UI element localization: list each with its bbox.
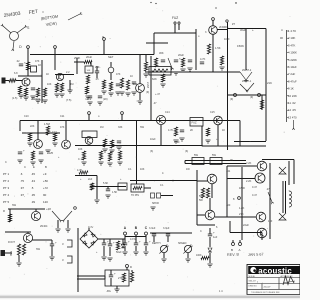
svg-text:(9): (9)	[230, 98, 233, 101]
svg-text:1.5K: 1.5K	[112, 191, 117, 194]
svg-text:SW: SW	[12, 204, 17, 207]
svg-text:.97: .97	[20, 193, 24, 197]
svg-text:1W: 1W	[186, 168, 190, 171]
svg-text:2N457-1: 2N457-1	[242, 80, 252, 83]
svg-text:1uF: 1uF	[213, 236, 218, 239]
svg-text:+20: +20	[226, 204, 231, 207]
svg-text:+: +	[149, 240, 151, 244]
svg-text:21K: 21K	[267, 81, 272, 85]
svg-text:FET: FET	[28, 9, 38, 16]
svg-text:1.5K: 1.5K	[215, 46, 221, 50]
svg-text:20uF: 20uF	[86, 55, 92, 59]
svg-text:#7: #7	[232, 22, 235, 26]
svg-text:0.47: 0.47	[252, 186, 257, 189]
svg-text:3 47K: 3 47K	[288, 43, 295, 47]
svg-text:11 .02: 11 .02	[288, 101, 296, 105]
svg-text:.39: .39	[31, 200, 35, 204]
svg-text:1M: 1M	[70, 83, 73, 86]
svg-text:2uF: 2uF	[88, 178, 93, 181]
svg-text:1K: 1K	[46, 73, 49, 76]
svg-text:+.47: +.47	[155, 93, 161, 96]
svg-text:NET: NET	[108, 55, 114, 59]
svg-text:2N404: 2N404	[40, 225, 48, 228]
svg-text:.27: .27	[266, 188, 270, 191]
svg-text:33K: 33K	[118, 126, 123, 129]
svg-text:5W: 5W	[212, 153, 216, 157]
svg-text:DWG NO.: DWG NO.	[249, 286, 258, 288]
svg-text:5W: 5W	[194, 153, 198, 157]
svg-text:R: R	[3, 209, 5, 213]
svg-text:8 47uF: 8 47uF	[288, 79, 297, 83]
svg-text:5.6K: 5.6K	[9, 251, 12, 256]
svg-text:4.7K: 4.7K	[168, 129, 173, 132]
svg-text:4 100K: 4 100K	[288, 51, 297, 55]
svg-text:C: C	[24, 165, 26, 169]
svg-text:(7.5): (7.5)	[66, 98, 71, 102]
svg-text:PT 2: PT 2	[3, 179, 9, 183]
svg-text:.02: .02	[16, 60, 20, 63]
svg-text:.05: .05	[95, 78, 99, 81]
svg-text:13 470: 13 470	[288, 115, 297, 119]
svg-text:PT 1: PT 1	[3, 172, 9, 176]
svg-text:10K: 10K	[140, 168, 145, 171]
svg-text:B: B	[45, 165, 47, 169]
svg-text:(20): (20)	[103, 97, 108, 101]
svg-text:+: +	[213, 231, 215, 235]
svg-text:4.7K: 4.7K	[200, 57, 206, 61]
svg-text:22K: 22K	[30, 125, 35, 128]
svg-text:2K: 2K	[190, 129, 193, 132]
svg-text:REV. B: REV. B	[227, 253, 240, 257]
svg-text:.97: .97	[20, 186, 24, 190]
svg-text:2.2: 2.2	[66, 71, 70, 74]
svg-text:SW: SW	[140, 126, 145, 129]
svg-text:-36v: -36v	[106, 290, 112, 293]
svg-text:10 22K: 10 22K	[288, 94, 297, 98]
svg-text:C14: C14	[165, 111, 170, 114]
svg-text:2N2924: 2N2924	[31, 97, 41, 101]
svg-text:2 10K: 2 10K	[288, 36, 295, 40]
svg-text:+50: +50	[43, 179, 48, 183]
svg-text:10uF: 10uF	[174, 141, 180, 144]
svg-text:TO PIN: TO PIN	[131, 194, 139, 197]
svg-text:1.8K: 1.8K	[239, 206, 245, 210]
svg-text:.47: .47	[153, 102, 157, 105]
svg-text:10uF: 10uF	[224, 38, 230, 41]
svg-text:FUZ: FUZ	[172, 16, 178, 20]
svg-text:12 .05: 12 .05	[288, 108, 296, 112]
svg-text:SW: SW	[36, 248, 41, 251]
svg-text:30uF: 30uF	[240, 28, 246, 32]
svg-text:acoustic: acoustic	[258, 266, 292, 275]
svg-text:.43: .43	[31, 179, 35, 183]
svg-text:47K: 47K	[116, 73, 121, 76]
svg-text:D: D	[130, 265, 132, 269]
svg-text:n1 n2: n1 n2	[85, 98, 92, 101]
svg-text:7 2uF: 7 2uF	[288, 72, 295, 76]
svg-text:5.6K: 5.6K	[103, 182, 108, 185]
svg-text:PT 4: PT 4	[3, 193, 9, 197]
svg-text:(9): (9)	[250, 96, 253, 99]
svg-text:FOOT: FOOT	[8, 241, 15, 244]
svg-text:20uF: 20uF	[178, 53, 184, 57]
svg-text:1uF: 1uF	[268, 220, 273, 223]
svg-text:150K: 150K	[237, 44, 244, 48]
svg-text:2.2K: 2.2K	[246, 161, 252, 165]
svg-text:(3): (3)	[185, 150, 188, 153]
svg-text:0.47: 0.47	[252, 194, 257, 197]
svg-text:SPEED: SPEED	[178, 242, 187, 245]
svg-text:A: A	[239, 248, 241, 252]
svg-text:1K: 1K	[222, 129, 225, 132]
svg-text:PT 5: PT 5	[3, 200, 9, 204]
svg-text:+: +	[114, 272, 116, 276]
svg-text:(3): (3)	[150, 150, 153, 153]
svg-text:13.5v: 13.5v	[130, 238, 137, 241]
svg-text:(1.5): (1.5)	[12, 96, 17, 100]
svg-text:FUZ: FUZ	[192, 121, 197, 125]
svg-text:30K: 30K	[159, 51, 164, 55]
svg-text:JAN 5 67: JAN 5 67	[248, 252, 264, 257]
svg-text:120: 120	[43, 200, 48, 204]
svg-text:200-027: 200-027	[264, 287, 271, 289]
svg-text:APPROVED BY: APPROVED BY	[281, 275, 294, 278]
svg-text:27K: 27K	[239, 212, 244, 216]
svg-text:C11: C11	[60, 115, 65, 118]
svg-text:PT 3: PT 3	[3, 186, 9, 190]
svg-text:62K: 62K	[152, 77, 157, 81]
svg-text:D: D	[19, 45, 22, 49]
svg-text:DEPTH: DEPTH	[152, 242, 161, 245]
svg-text:SPKR: SPKR	[152, 202, 159, 205]
svg-text:TOLERANCE NOT DIM ARE REF: TOLERANCE NOT DIM ARE REF	[251, 291, 280, 294]
svg-text:10uF: 10uF	[150, 138, 156, 141]
svg-text:47K: 47K	[35, 60, 40, 63]
svg-text:560: 560	[199, 195, 204, 198]
svg-text:+: +	[23, 149, 25, 153]
svg-text:2uF: 2uF	[133, 83, 138, 86]
svg-text:0.1: 0.1	[160, 184, 164, 187]
svg-text:4.7K: 4.7K	[77, 169, 82, 172]
svg-text:1 4.7K: 1 4.7K	[288, 29, 296, 33]
svg-text:1 4: 1 4	[219, 290, 223, 293]
svg-text:+: +	[179, 57, 181, 61]
svg-text:G60-117: G60-117	[249, 281, 256, 283]
svg-text:+: +	[55, 241, 57, 245]
svg-text:C 1.5: C 1.5	[78, 158, 85, 161]
svg-text:+: +	[24, 61, 26, 65]
svg-text:0.1: 0.1	[128, 168, 132, 171]
svg-text:90: 90	[43, 193, 47, 197]
svg-text:.45: .45	[31, 172, 35, 176]
svg-text:.35: .35	[31, 193, 35, 197]
svg-text:+: +	[252, 28, 254, 32]
svg-text:.6: .6	[20, 172, 23, 176]
svg-text:.5: .5	[31, 186, 34, 190]
svg-text:5W: 5W	[199, 199, 203, 202]
svg-text:10K: 10K	[47, 83, 52, 86]
svg-text:+: +	[139, 240, 141, 244]
svg-text:1M: 1M	[100, 126, 103, 129]
svg-text:10K: 10K	[87, 70, 91, 72]
svg-text:E: E	[33, 165, 35, 169]
svg-text:C: C	[200, 230, 202, 233]
svg-text:47K: 47K	[60, 126, 65, 129]
svg-text:22uF: 22uF	[243, 223, 249, 227]
svg-text:50uF: 50uF	[116, 251, 122, 254]
svg-text:C15: C15	[210, 111, 215, 114]
svg-text:9 1K: 9 1K	[288, 87, 294, 91]
svg-text:(9): (9)	[146, 91, 149, 94]
svg-text:+41: +41	[226, 170, 231, 173]
svg-text:5 220K: 5 220K	[288, 58, 297, 62]
svg-text:+9: +9	[43, 172, 47, 176]
svg-text:6 10uF: 6 10uF	[288, 65, 297, 69]
svg-text:+125: +125	[47, 151, 54, 155]
svg-text:117v: 117v	[88, 226, 94, 229]
svg-text:1K: 1K	[38, 63, 41, 67]
svg-text:1.5M: 1.5M	[44, 122, 50, 126]
svg-text:+: +	[107, 240, 109, 244]
svg-text:2.2K: 2.2K	[246, 179, 252, 183]
svg-text:10K: 10K	[78, 148, 83, 151]
svg-text:100K: 100K	[196, 254, 202, 257]
svg-text:2N457-2: 2N457-2	[242, 69, 252, 72]
svg-text:MODEL: MODEL	[249, 276, 256, 278]
svg-text:B: B	[231, 248, 233, 252]
svg-text:C: C	[5, 161, 7, 164]
svg-text:180K: 180K	[239, 186, 245, 190]
svg-text:+: +	[113, 241, 115, 245]
svg-text:2.2M: 2.2M	[146, 82, 150, 88]
svg-text:6.8: 6.8	[14, 72, 18, 75]
svg-text:+72: +72	[43, 186, 48, 190]
svg-text:.75: .75	[20, 179, 24, 183]
svg-text:C10: C10	[24, 115, 29, 118]
svg-text:3.3uF: 3.3uF	[149, 227, 156, 230]
